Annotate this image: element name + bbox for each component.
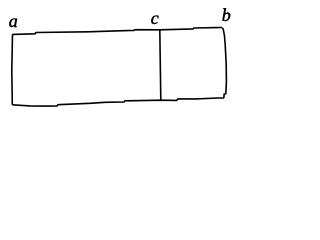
wire bottom edge [12, 98, 224, 106]
svg-text:c: c [151, 8, 159, 28]
wire top edge a to c to b [12, 28, 222, 35]
wire left edge below a [11, 34, 14, 105]
wire divider segment at c [160, 30, 161, 100]
wire right edge below b [222, 28, 226, 98]
svg-text:a: a [9, 11, 18, 31]
svg-text:b: b [222, 5, 231, 25]
